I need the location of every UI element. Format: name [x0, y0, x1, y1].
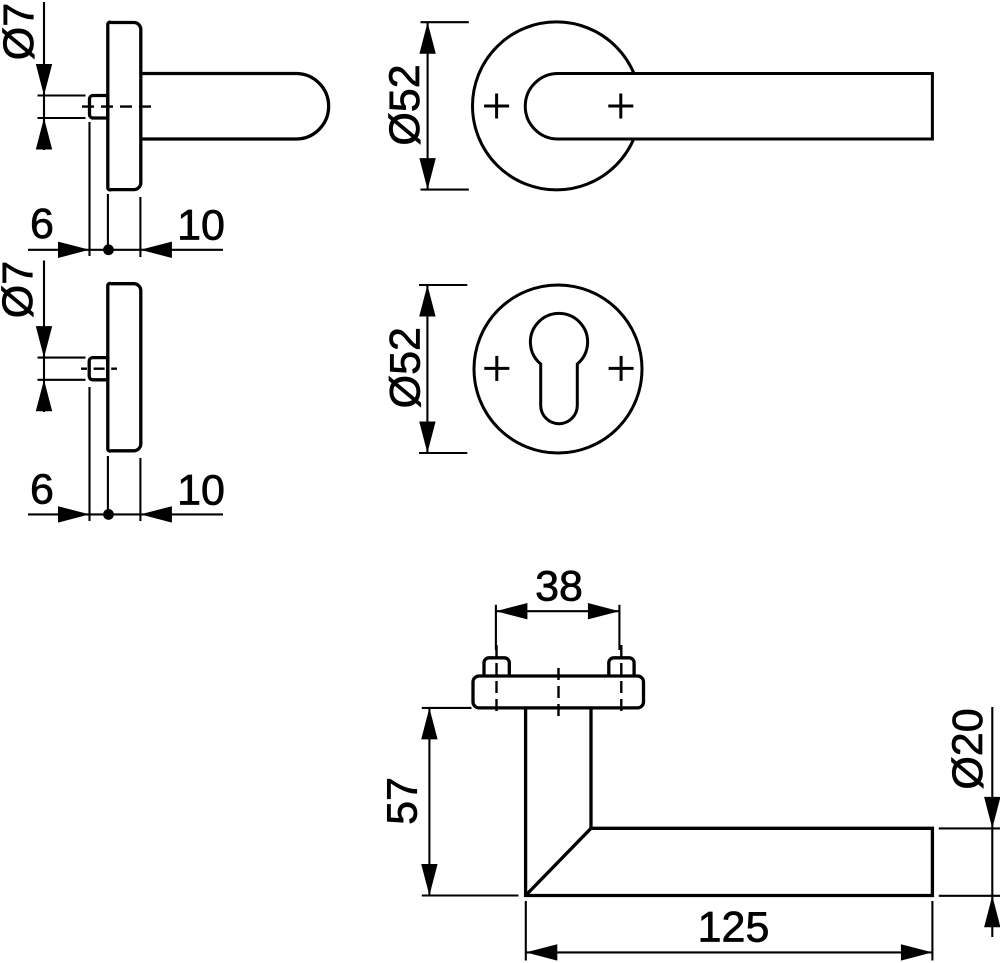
dimension 6 / 10 (view 2)	[28, 387, 223, 521]
dimension 57 (view 5)	[422, 708, 519, 896]
svg-text:Ø20: Ø20	[944, 708, 992, 789]
svg-text:10: 10	[177, 202, 225, 250]
dimension Ø52 (view 4)	[419, 285, 467, 453]
dimension Ø7 (view 1)	[38, 2, 86, 150]
lever neck/grip (side view, view 1)	[141, 74, 329, 140]
screw mark left (view 3)	[484, 94, 509, 119]
svg-text:38: 38	[535, 563, 583, 611]
dimension Ø20 (view 5)	[939, 707, 1000, 937]
svg-text:125: 125	[698, 904, 770, 952]
svg-text:Ø7: Ø7	[0, 261, 42, 318]
dimension Ø52 (view 3)	[421, 22, 469, 189]
rosette body (side view, view 1)	[108, 22, 141, 190]
svg-text:10: 10	[177, 467, 225, 515]
svg-text:57: 57	[379, 777, 427, 825]
screw mark right (view 4)	[609, 356, 634, 381]
miter line of bend	[526, 828, 591, 895]
screw head right (view 5)	[609, 658, 634, 676]
svg-text:6: 6	[30, 200, 54, 248]
centerline of cylinder (view 2)	[81, 368, 117, 370]
svg-text:Ø52: Ø52	[382, 327, 430, 408]
rose circle (view 4)	[474, 285, 642, 453]
centerline right screw (view 5)	[620, 645, 622, 712]
dimension Ø7 (view 2)	[38, 261, 86, 413]
spindle stub (view 1)	[90, 96, 108, 119]
rose circle (view 3)	[473, 22, 641, 190]
cylinder stub (view 2)	[89, 358, 108, 380]
screw mark right (view 3)	[608, 94, 633, 119]
screw mark left (view 4)	[484, 356, 509, 381]
rosette flange (top view)	[473, 676, 644, 708]
lever neck and grip outline (top view)	[526, 708, 933, 896]
dimension 6 / 10 (view 1)	[28, 122, 223, 257]
euro profile cylinder hole (view 4)	[530, 313, 587, 423]
screw head left (view 5)	[484, 658, 509, 676]
rosette body (side view, view 2)	[108, 283, 141, 451]
svg-text:Ø52: Ø52	[381, 64, 429, 145]
svg-text:6: 6	[30, 466, 54, 514]
dimension 38 (view 5)	[496, 605, 620, 650]
svg-text:Ø7: Ø7	[0, 3, 43, 60]
centerline left screw (view 5)	[495, 645, 497, 712]
centerline middle (view 5)	[557, 668, 559, 719]
dimension 125 (view 5)	[526, 901, 933, 961]
lever handle (front view)	[525, 74, 932, 140]
centerline of spindle (view 1)	[82, 105, 152, 107]
